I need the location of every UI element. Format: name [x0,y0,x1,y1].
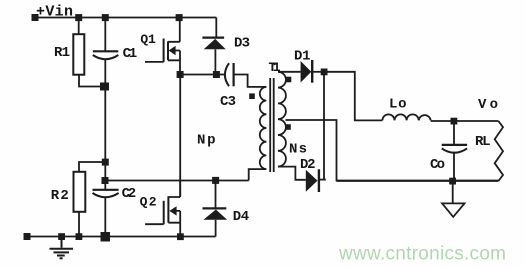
wire Ns top lead [278,71,301,73]
svg-text:D4: D4 [233,209,250,225]
node A (D1/D2 cathodes) [321,69,328,76]
svg-text:D2: D2 [300,157,316,173]
node R1 top [75,14,82,21]
node C1 top [102,14,109,21]
node R1/C1 bottom junction [100,83,109,91]
resistor RL [495,121,503,181]
wire node A down to D2 cathode [323,72,325,180]
node bottom-left terminal [24,233,31,240]
ground symbol left [50,237,74,259]
wire Ns center tap [286,120,499,181]
capacitor Co [442,121,467,181]
svg-text:C1: C1 [123,46,138,62]
svg-text:Np: Np [197,133,216,149]
svg-text:Vo: Vo [478,97,498,113]
node Co bottom [449,178,456,185]
node ground stem [58,233,65,240]
node C2 bottom [101,232,111,242]
svg-text:Q1: Q1 [140,32,156,47]
svg-text:Q2: Q2 [140,194,157,209]
inductor Lo [382,114,430,120]
node Q1 source [177,71,184,78]
capacitor C3 [225,63,266,87]
node R2 bottom [76,233,83,240]
transformer core [270,78,274,172]
capacitor C2 [93,181,119,237]
node C2 top [102,177,109,184]
svg-text:+Vin: +Vin [36,4,73,21]
wire Q1 source node rail [180,74,225,76]
svg-text:T1: T1 [269,60,281,75]
wire Ns bottom lead [278,167,306,180]
wire Lo to Vo node [431,120,499,122]
svg-text:Lo: Lo [389,97,407,113]
node +Vin terminal [32,14,39,21]
svg-text:R2: R2 [51,188,69,204]
transformer secondary winding Ns [278,72,286,167]
resistor R1 [73,18,105,87]
svg-text:Ns: Ns [289,141,307,157]
node D3 bottom [213,71,220,78]
wire top rail [35,17,216,19]
transistor Q2 [145,181,180,237]
ground symbol right [442,181,464,217]
svg-text:www.cntronics.com: www.cntronics.com [338,244,506,265]
node Ns phase dot mid [285,124,291,130]
transformer T1 primary winding Np [260,87,266,169]
wire node A to Lo [324,72,382,121]
node R2 top junction [102,159,109,166]
wire midpoint to C2 [104,162,106,181]
node D4 top [212,177,219,184]
diode D1 [301,60,324,83]
svg-text:RL: RL [475,134,491,150]
diode D3 [202,18,225,75]
svg-text:C2: C2 [122,186,137,202]
capacitor C1 [93,18,119,87]
wire output return rail [337,180,499,182]
wire mid-lower rail (Q2 drain node) [105,180,248,182]
wire R2 branch [79,162,105,172]
transistor Q1 [145,18,180,75]
node Q1 drain [176,14,183,21]
wire Q1-Q2 link [179,75,181,197]
diode D4 [203,181,228,237]
node Vo [451,118,458,125]
svg-text:R1: R1 [54,45,70,61]
diode D2 [306,169,326,192]
wire bottom rail [27,236,216,238]
wire C1-C2 midpoint [104,87,106,163]
svg-text:D3: D3 [234,36,250,52]
resistor R2 [74,172,86,237]
node Np phase dot [249,93,255,99]
wire Np bottom lead [249,169,267,180]
svg-text:Co: Co [430,157,445,173]
node Ns phase dot top [286,77,292,83]
svg-text:D1: D1 [294,49,311,65]
svg-text:C3: C3 [220,94,236,110]
node Q2 source [177,233,184,240]
